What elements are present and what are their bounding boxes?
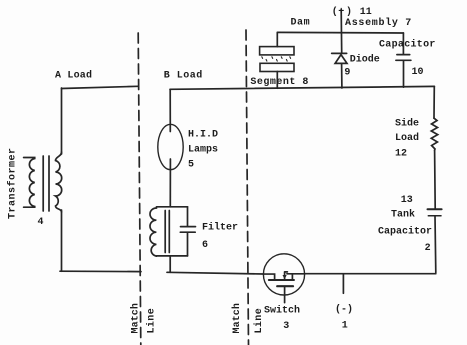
wire A-load left vertical lower	[61, 210, 63, 271]
filter F6 right branch upper	[187, 207, 189, 226]
svg-text:): )	[346, 6, 352, 18]
svg-text:B Load: B Load	[164, 70, 203, 82]
svg-text:Load: Load	[395, 132, 419, 144]
svg-text:13: 13	[401, 195, 413, 206]
svg-text:A Load: A Load	[55, 70, 92, 82]
switch Q3 gate bar	[277, 285, 293, 287]
segment S8 bottom plate	[260, 63, 294, 71]
filter F6 bottom wire	[156, 255, 187, 257]
svg-text:5: 5	[188, 160, 194, 171]
wire right branch middle	[434, 150, 437, 208]
wire segment bottom lead	[276, 72, 278, 89]
wire diode lead	[341, 64, 343, 88]
svg-text:Capacitor: Capacitor	[378, 225, 432, 237]
wire segment top lead	[276, 32, 278, 46]
svg-text:(-): (-)	[335, 304, 353, 316]
switch Q3 middle electrode	[285, 272, 288, 279]
switch Q3 right stub	[291, 274, 293, 279]
diode D9 triangle	[335, 55, 347, 64]
svg-text:1: 1	[342, 321, 348, 332]
svg-text:12: 12	[395, 149, 407, 160]
filter F6 core	[165, 211, 169, 253]
svg-text:Capacitor: Capacitor	[379, 39, 436, 51]
svg-text:H.I.D: H.I.D	[188, 130, 218, 141]
wire lamp to filter	[169, 159, 171, 207]
svg-text:4: 4	[38, 217, 44, 228]
wire capacitor C10 lower lead	[403, 61, 405, 88]
filter F6 top wire	[157, 206, 188, 208]
switch Q3 gate lead	[284, 286, 286, 302]
filter F6 inductor winding	[150, 208, 156, 257]
transformer T4 secondary winding	[56, 152, 62, 212]
svg-text:+: +	[338, 7, 344, 18]
match line 2 (dashed)	[246, 30, 249, 345]
svg-text:Lamps: Lamps	[188, 145, 218, 156]
wire A-load top horizontal	[62, 86, 139, 88]
svg-text:Filter: Filter	[202, 222, 238, 234]
svg-text:Transformer: Transformer	[6, 147, 18, 219]
capacitor C10 plates	[396, 55, 411, 61]
switch Q3 channel bar	[269, 279, 294, 281]
resistor R12 side load	[431, 118, 437, 150]
svg-text:Line: Line	[146, 308, 158, 334]
wire filter to bottom bus	[169, 256, 171, 272]
switch Q3 left lead and step	[264, 274, 275, 279]
transformer T4 primary winding	[24, 158, 35, 208]
svg-text:(: (	[332, 6, 338, 18]
wire B bottom bus right	[304, 273, 435, 275]
switch Q3 arrowhead	[283, 275, 287, 279]
wire positive terminal lead	[340, 10, 343, 53]
svg-text:10: 10	[412, 67, 424, 78]
svg-text:Tank: Tank	[391, 209, 415, 221]
svg-text:2: 2	[425, 243, 431, 254]
wire capacitor C10 upper lead	[402, 33, 404, 54]
wire A-load bottom horizontal	[60, 270, 141, 272]
filter F6 right branch lower	[187, 233, 189, 256]
wire A-load left vertical upper	[61, 88, 63, 154]
svg-text:3: 3	[283, 321, 289, 332]
filter F6 capacitor plates	[180, 227, 195, 233]
svg-text:Segment 8: Segment 8	[250, 77, 309, 88]
match line 1 (dashed)	[138, 33, 141, 345]
tank capacitor C2 plates	[428, 208, 442, 210]
svg-text:Diode: Diode	[350, 54, 380, 66]
wire dam horizontal	[278, 31, 404, 34]
segment S8 tick marks	[262, 57, 291, 61]
svg-text:Side: Side	[395, 117, 419, 129]
diode D9 cathode bar	[332, 52, 347, 54]
segment S8 top plate	[260, 47, 294, 55]
wire right branch upper	[433, 87, 435, 119]
svg-text:Dam: Dam	[291, 17, 311, 28]
transformer T4 core	[43, 156, 49, 211]
wire B bottom bus left	[167, 272, 264, 274]
wire B top bus	[170, 86, 434, 89]
svg-text:Assembly 7: Assembly 7	[345, 17, 412, 29]
svg-text:Match: Match	[231, 303, 243, 334]
switch Q3 circle	[263, 254, 304, 295]
svg-text:9: 9	[344, 68, 350, 79]
wire B left vertical	[169, 90, 171, 132]
switch Q3 right lead	[287, 273, 305, 275]
wire negative terminal lead	[342, 274, 344, 293]
svg-text:11: 11	[360, 7, 372, 18]
wire right branch lower	[434, 216, 437, 272]
svg-text:Switch: Switch	[264, 305, 300, 317]
svg-text:6: 6	[202, 240, 208, 251]
svg-text:Match: Match	[130, 303, 142, 334]
lamp L5 H.I.D envelope	[158, 124, 183, 169]
